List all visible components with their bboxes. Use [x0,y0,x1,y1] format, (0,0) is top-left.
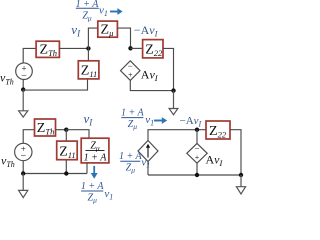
blue right arrow bottom [154,117,167,124]
node dot top [195,128,199,132]
bottom rail [23,173,87,175]
bottom rail right circuit [148,174,241,176]
node dot bottom right [239,173,243,177]
svg-text:1 + A: 1 + A [119,151,143,162]
label (1+A)/Zmu v1 top right [121,108,154,132]
resistor Z_Th bottom [35,119,56,136]
impedance box Zmu/(1+A) [81,138,109,173]
label (1+A)/Zmu v1 left of source [119,151,150,175]
fraction bar [76,7,99,9]
ground bottom-right circuit [236,175,245,194]
wire node to Z22 [131,47,143,49]
wire Z11 top lead [87,48,89,60]
capacitor-impedance Z_mu box [98,21,118,38]
bottom rail left [23,79,87,90]
svg-text:−: − [128,61,133,71]
resistor Z_Th [36,41,59,58]
wire Zmu to output node [117,28,130,48]
top rail bottom-right [148,130,206,141]
resistor Z_22 [143,40,163,58]
wire source bottom [22,79,24,89]
wire node to Zmu box corner [66,130,89,139]
ground bottom-left circuit [19,174,28,198]
svg-text:−: − [20,151,26,162]
node bottom-right dot [171,88,175,92]
svg-text:−: − [21,70,27,81]
node dot bottom circuit [64,128,68,132]
dependent source diamond Av_I bottom [187,130,207,175]
current source diamond with up arrow [138,141,158,176]
wire vth top to ZTh [23,48,36,63]
svg-text:−AvI: −AvI [180,115,202,129]
wire node up to Zmu [88,28,97,48]
svg-text:1 + A: 1 + A [84,153,108,164]
resistor Z_11 bottom [57,130,77,174]
label (1+A)/Zmu v1 bottom [81,181,113,205]
svg-text:−: − [194,144,199,154]
wire top-left corner to ZTh [23,130,34,144]
node bottom-left dot [21,87,25,91]
node dot bottom-left [21,171,25,175]
wire Z22 right side down [230,130,241,175]
wire ZTh to node [56,129,67,131]
node output dot [128,46,132,50]
voltage source v_Th top circuit [16,63,33,82]
svg-text:1 + A: 1 + A [121,108,145,119]
voltage source v_Th bottom [15,143,32,173]
ground top circuit left [19,90,28,118]
node dot under Z11 [64,171,68,175]
node vI dot [86,46,90,50]
svg-text:1 + A: 1 + A [81,181,105,192]
wire Z22 right down to bottom [163,48,174,90]
ground top circuit right [169,91,178,115]
wire diamond bottom rail right [130,80,173,90]
dependent source diamond Av_I top circuit [121,61,141,81]
resistor Z_11 [78,61,99,79]
svg-text:+: + [128,71,133,80]
wire ZTh to node vI [59,47,88,49]
svg-text:+: + [195,153,200,162]
node dot under diamond [195,173,199,177]
resistor Z_22 bottom [206,121,230,139]
blue down arrow current [91,166,98,179]
blue right arrow [110,8,123,15]
label (1+A)/Zmu v1 current label top [76,0,108,23]
